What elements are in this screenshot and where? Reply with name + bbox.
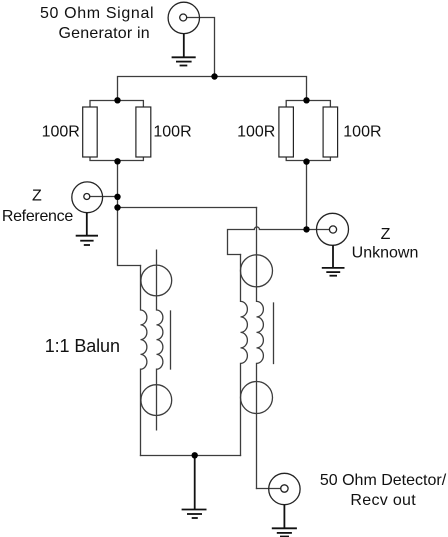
svg-text:100R: 100R bbox=[237, 123, 275, 140]
svg-text:Z: Z bbox=[32, 188, 42, 205]
svg-text:Unknown: Unknown bbox=[352, 245, 419, 262]
svg-text:100R: 100R bbox=[42, 123, 80, 140]
svg-text:50 Ohm Detector/: 50 Ohm Detector/ bbox=[320, 472, 447, 489]
svg-text:Recv out: Recv out bbox=[350, 492, 416, 509]
svg-text:100R: 100R bbox=[343, 123, 381, 140]
svg-text:1:1 Balun: 1:1 Balun bbox=[45, 336, 120, 356]
svg-text:Z: Z bbox=[381, 226, 391, 243]
svg-text:50 Ohm Signal: 50 Ohm Signal bbox=[40, 5, 154, 22]
svg-text:Generator in: Generator in bbox=[59, 25, 150, 42]
svg-text:Reference: Reference bbox=[2, 208, 74, 225]
svg-text:100R: 100R bbox=[153, 123, 191, 140]
